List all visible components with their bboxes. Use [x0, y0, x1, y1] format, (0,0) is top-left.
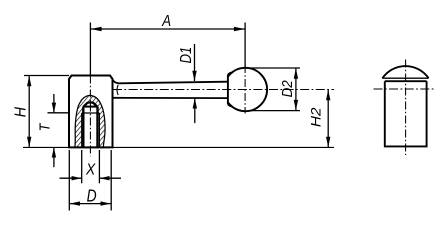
- thread minor line right: [96, 107, 98, 148]
- dim T upper arrow: [52, 103, 56, 113]
- dim H2 line: [327, 90, 329, 148]
- dim H2 arrow bottom: [326, 137, 330, 148]
- ball knob: [224, 68, 267, 111]
- ball flat: [228, 73, 232, 107]
- dim T upper line: [53, 94, 55, 112]
- svg-text:D1: D1: [178, 47, 195, 64]
- dim T extension: [48, 112, 70, 114]
- head base thick line: [68, 146, 114, 148]
- dim D1 lower arrow: [193, 98, 197, 109]
- svg-text:A: A: [161, 13, 171, 30]
- dim D2 extension top: [245, 67, 300, 69]
- dim A arrow right: [234, 27, 245, 31]
- handle arm top edge: [113, 80, 228, 84]
- dim D extension right: [110, 150, 112, 211]
- dim D arrow right: [101, 201, 112, 205]
- dim D1 upper line: [194, 44, 196, 81]
- arm centerline: [113, 89, 334, 91]
- end view horizontal centerline: [374, 88, 436, 90]
- dim H arrow bottom: [27, 137, 31, 148]
- dim H arrow top: [27, 76, 31, 87]
- thread minor line left: [82, 107, 84, 148]
- dim D2 arrow bottom: [294, 100, 298, 111]
- tapped hole white interior: [82, 102, 100, 147]
- handle arm bottom edge: [113, 97, 228, 99]
- dim T lower arrow: [52, 147, 56, 157]
- ball vertical centerline: [244, 65, 246, 114]
- dim T lower line: [53, 148, 55, 168]
- arm root fillet: [117, 85, 118, 95]
- dim A extension right: [244, 23, 246, 68]
- dim D arrow left: [70, 201, 81, 205]
- dim D line: [69, 203, 111, 205]
- dim D2 line: [295, 68, 297, 111]
- dim D2 arrow top: [294, 68, 298, 79]
- thread major line right: [98, 113, 100, 148]
- dim X left arrow: [72, 176, 82, 180]
- dim D2 extension bottom: [248, 110, 300, 112]
- end view body outline: [385, 81, 427, 146]
- dim A arrow left: [91, 27, 102, 31]
- thread depth line: [82, 112, 100, 114]
- drill point cap: [83, 102, 97, 106]
- dim X extension left: [81, 150, 83, 183]
- dim X left arrow line: [60, 177, 82, 179]
- dim D1 lower line: [194, 98, 196, 123]
- svg-text:H: H: [12, 107, 29, 118]
- dim H2 arrow top: [326, 90, 330, 101]
- head outline: [69, 76, 113, 148]
- drill shoulder line: [83, 106, 97, 108]
- dim X extension right: [98, 150, 100, 183]
- svg-text:H2: H2: [308, 107, 324, 127]
- end view centerline: [405, 60, 407, 156]
- svg-text:D: D: [87, 186, 97, 206]
- dim X right arrow: [100, 176, 110, 180]
- dim X right arrow line: [100, 177, 121, 179]
- svg-text:D2: D2: [280, 80, 296, 97]
- base surface line: [23, 146, 334, 148]
- dim D extension left: [68, 150, 70, 211]
- dim H extension top: [24, 75, 69, 77]
- end view dome chord line: [382, 77, 428, 79]
- svg-text:X: X: [85, 162, 96, 179]
- dim D1 upper arrow: [192, 71, 196, 82]
- lever head section hatch: [75, 95, 105, 147]
- dim A extension left: [89, 23, 91, 76]
- dim H line: [28, 76, 30, 148]
- dim A line: [90, 28, 245, 30]
- head centerline: [89, 76, 91, 157]
- end view dome arc: [382, 66, 428, 78]
- thread major line left: [81, 113, 83, 148]
